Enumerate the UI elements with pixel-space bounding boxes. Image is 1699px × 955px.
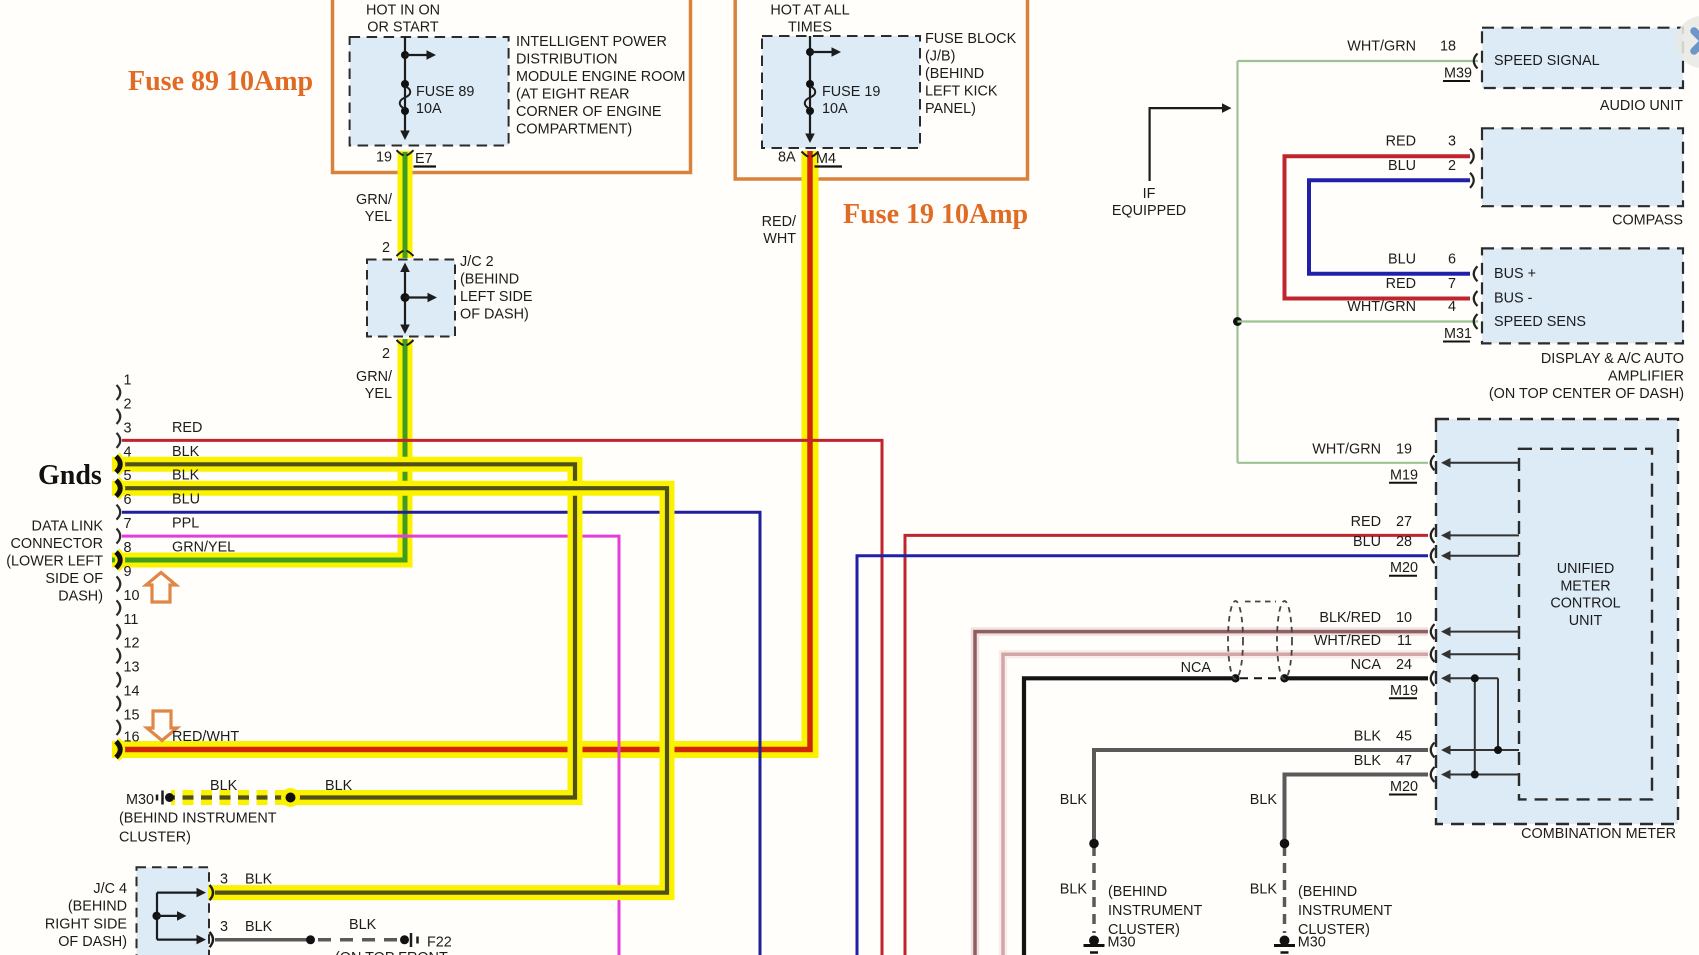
svg-text:9: 9 <box>124 564 132 580</box>
ground symbol M30 (left) <box>1089 936 1099 946</box>
svg-text:WHT/RED: WHT/RED <box>1314 633 1381 649</box>
svg-text:WHT/GRN: WHT/GRN <box>1347 39 1416 55</box>
svg-text:CONTROL: CONTROL <box>1550 596 1620 612</box>
svg-text:HOT IN ON: HOT IN ON <box>366 3 440 19</box>
svg-text:BLU: BLU <box>1353 534 1381 550</box>
wire RED 3 / RED 7 compass loop <box>1285 156 1471 298</box>
svg-text:M30: M30 <box>1108 935 1136 951</box>
svg-text:OF DASH): OF DASH) <box>58 934 127 950</box>
svg-text:GRN/: GRN/ <box>356 369 392 385</box>
wire BLK J/C4 pin 3 to F22 <box>215 938 311 942</box>
svg-text:4: 4 <box>1448 299 1456 315</box>
svg-text:WHT/GRN: WHT/GRN <box>1312 441 1381 457</box>
svg-text:15: 15 <box>124 708 140 724</box>
fuse box E7 (Intelligent Power Distribution Module) <box>350 37 509 146</box>
svg-text:BLK: BLK <box>1354 753 1382 769</box>
wire RED 27 to unified meter <box>905 535 1428 955</box>
svg-text:PANEL): PANEL) <box>925 101 976 117</box>
svg-text:M20: M20 <box>1390 560 1418 576</box>
svg-text:FUSE 19: FUSE 19 <box>822 84 880 100</box>
power source box 2 (HOT AT ALL TIMES) <box>735 0 1027 179</box>
svg-text:11: 11 <box>1397 633 1412 649</box>
power source box 1 (HOT IN ON OR START) <box>333 0 691 173</box>
fuse 19 symbol and feed line <box>809 36 811 134</box>
svg-text:3: 3 <box>1448 134 1456 150</box>
junction connector J/C 2 <box>367 260 455 337</box>
J/C 4 internal branches <box>156 893 158 940</box>
svg-text:(BEHIND: (BEHIND <box>68 899 127 915</box>
svg-text:10A: 10A <box>822 101 848 117</box>
svg-text:UNIFIED: UNIFIED <box>1557 561 1615 577</box>
svg-text:TIMES: TIMES <box>788 20 832 36</box>
J/C 4 pin arcs <box>210 885 214 900</box>
svg-text:BLK: BLK <box>245 872 273 888</box>
wire BLK 47 to ground M30 right <box>1285 775 1429 844</box>
svg-text:NCA: NCA <box>1181 660 1212 676</box>
wire GRN/YEL fuse89 to J/C2 (yellow highlight) <box>398 151 413 258</box>
svg-text:13: 13 <box>124 660 140 676</box>
svg-text:BLU: BLU <box>172 492 200 508</box>
svg-text:(AT EIGHT REAR: (AT EIGHT REAR <box>516 87 630 103</box>
svg-text:WHT/GRN: WHT/GRN <box>1347 299 1416 315</box>
svg-text:SIDE OF: SIDE OF <box>45 571 103 587</box>
svg-text:M30: M30 <box>1298 935 1326 951</box>
connector arcs at combination meter <box>1431 455 1435 470</box>
svg-text:HOT AT ALL: HOT AT ALL <box>770 3 849 19</box>
svg-text:(BEHIND: (BEHIND <box>1298 884 1357 900</box>
svg-text:LEFT SIDE: LEFT SIDE <box>460 289 533 305</box>
svg-text:BLK: BLK <box>1060 882 1088 898</box>
svg-text:COMPARTMENT): COMPARTMENT) <box>516 122 632 138</box>
svg-text:CORNER OF ENGINE: CORNER OF ENGINE <box>516 104 662 120</box>
connector symbol at J/C 2 top <box>397 251 404 256</box>
svg-text:MODULE ENGINE ROOM: MODULE ENGINE ROOM <box>516 69 686 85</box>
svg-text:DASH): DASH) <box>58 589 103 605</box>
data link connector pin arcs 1-16 <box>117 385 121 400</box>
svg-text:BUS +: BUS + <box>1494 266 1536 282</box>
svg-text:14: 14 <box>124 684 140 700</box>
svg-text:2: 2 <box>124 396 132 412</box>
svg-text:3: 3 <box>124 420 132 436</box>
wire GRN/YEL J/C2 to data link pin 8 (yellow highlight) <box>112 339 405 560</box>
svg-text:SPEED SIGNAL: SPEED SIGNAL <box>1494 53 1600 69</box>
svg-text:7: 7 <box>124 516 132 532</box>
svg-text:BLK: BLK <box>1060 792 1088 808</box>
compass box <box>1482 128 1683 206</box>
svg-text:BLK: BLK <box>210 778 238 794</box>
svg-text:M19: M19 <box>1390 467 1418 483</box>
wire PPL data link pin 7 <box>122 536 619 955</box>
connector symbol at J/C 2 bottom <box>397 340 404 345</box>
wire RED/WHT fuse19 to data link pin 16 (yellow highlight) <box>112 151 810 750</box>
wire BLU 28 to unified meter <box>857 556 1428 955</box>
svg-text:NCA: NCA <box>1351 657 1382 673</box>
wire BLK data link pin 4 to M30 ground (yellow highlight) <box>112 464 575 797</box>
svg-text:(BEHIND INSTRUMENT: (BEHIND INSTRUMENT <box>119 811 277 827</box>
svg-text:M19: M19 <box>1390 683 1418 699</box>
svg-text:E7: E7 <box>415 151 433 167</box>
svg-text:BLU: BLU <box>1388 251 1416 267</box>
wire WHT/GRN 18 to audio unit <box>1238 60 1479 62</box>
junction connector J/C 4 <box>137 867 210 955</box>
floating viewer button top right <box>1676 16 1699 68</box>
wire BLK/RED 10 to unified meter <box>975 632 1428 955</box>
svg-text:BLK: BLK <box>1250 792 1278 808</box>
svg-text:BLK/RED: BLK/RED <box>1319 610 1381 626</box>
svg-text:11: 11 <box>124 612 139 628</box>
wire WHT/GRN 19 to unified meter <box>1238 462 1429 464</box>
svg-text:RED: RED <box>1386 134 1416 150</box>
connector arcs at audio unit / amplifier <box>1474 54 1478 69</box>
svg-text:(BEHIND: (BEHIND <box>460 272 519 288</box>
svg-text:4: 4 <box>124 444 132 460</box>
svg-text:(J/B): (J/B) <box>925 49 955 65</box>
svg-text:(BEHIND: (BEHIND <box>925 66 984 82</box>
svg-text:3: 3 <box>220 919 228 935</box>
svg-text:RED: RED <box>172 420 202 436</box>
svg-text:INSTRUMENT: INSTRUMENT <box>1108 903 1203 919</box>
unified meter control unit inner box <box>1519 449 1652 800</box>
fuse box M4 (Fuse Block J/B) <box>762 36 920 148</box>
svg-text:10: 10 <box>124 588 140 604</box>
svg-text:24: 24 <box>1396 657 1412 673</box>
orange block arrow up (near pin 9) <box>146 573 176 603</box>
svg-text:IF: IF <box>1143 186 1156 202</box>
svg-text:AUDIO UNIT: AUDIO UNIT <box>1600 98 1683 114</box>
wire WHT/RED 11 to unified meter <box>1003 654 1428 955</box>
svg-text:INSTRUMENT: INSTRUMENT <box>1298 903 1393 919</box>
svg-text:COMPASS: COMPASS <box>1612 213 1683 229</box>
svg-text:8A: 8A <box>778 150 796 166</box>
fuse 89 symbol and feed line <box>404 37 406 131</box>
svg-text:DATA LINK: DATA LINK <box>32 519 104 535</box>
svg-text:Gnds: Gnds <box>38 460 102 491</box>
svg-text:CLUSTER): CLUSTER) <box>119 830 191 846</box>
svg-text:8: 8 <box>124 540 132 556</box>
svg-text:(LOWER LEFT: (LOWER LEFT <box>6 554 103 570</box>
svg-text:OR START: OR START <box>367 20 439 36</box>
svg-text:J/C 4: J/C 4 <box>93 881 127 897</box>
svg-text:BLU: BLU <box>1388 158 1416 174</box>
svg-text:6: 6 <box>1448 251 1456 267</box>
orange block arrow down (near pin 15) <box>147 711 177 741</box>
svg-text:RED/: RED/ <box>762 214 796 230</box>
svg-text:RED: RED <box>1386 276 1416 292</box>
IF EQUIPPED pointer arrow <box>1150 108 1222 181</box>
wire RED data link pin 3 <box>122 440 882 955</box>
svg-text:10A: 10A <box>416 101 442 117</box>
svg-text:YEL: YEL <box>365 209 392 225</box>
svg-text:(BEHIND: (BEHIND <box>1108 884 1167 900</box>
svg-text:DISTRIBUTION: DISTRIBUTION <box>516 52 618 68</box>
svg-text:10: 10 <box>1396 610 1412 626</box>
svg-text:J/C 2: J/C 2 <box>460 254 494 270</box>
svg-text:METER: METER <box>1560 578 1610 594</box>
svg-text:47: 47 <box>1396 753 1412 769</box>
svg-text:AMPLIFIER: AMPLIFIER <box>1608 369 1684 385</box>
svg-text:CONNECTOR: CONNECTOR <box>11 536 103 552</box>
svg-text:6: 6 <box>124 492 132 508</box>
svg-text:RED: RED <box>1351 514 1381 530</box>
connector arcs at compass <box>1470 149 1474 164</box>
svg-text:2: 2 <box>382 346 390 362</box>
svg-text:16: 16 <box>124 730 140 746</box>
svg-text:GRN/: GRN/ <box>356 192 392 208</box>
M30 inline connector symbol <box>161 791 164 805</box>
svg-text:FUSE 89: FUSE 89 <box>416 84 474 100</box>
svg-text:BLK: BLK <box>1250 882 1278 898</box>
svg-text:BLK: BLK <box>349 917 377 933</box>
svg-text:DISPLAY & A/C AUTO: DISPLAY & A/C AUTO <box>1541 351 1684 367</box>
svg-text:7: 7 <box>1448 276 1456 292</box>
svg-text:Fuse 89 10Amp: Fuse 89 10Amp <box>128 66 313 97</box>
svg-text:COMBINATION METER: COMBINATION METER <box>1521 826 1676 842</box>
wire WHT/GRN vertical <box>1236 61 1238 463</box>
svg-text:18: 18 <box>1440 39 1456 55</box>
wire BLU data link pin 6 <box>122 512 760 955</box>
svg-text:3: 3 <box>220 872 228 888</box>
svg-text:SPEED SENS: SPEED SENS <box>1494 314 1586 330</box>
junction dot WHT/GRN <box>1233 317 1242 326</box>
svg-text:19: 19 <box>1396 441 1412 457</box>
junction dot on M30 wire <box>281 788 300 807</box>
svg-text:YEL: YEL <box>365 386 392 402</box>
svg-text:27: 27 <box>1396 514 1412 530</box>
junction dots on NCA shield <box>1231 674 1239 682</box>
shield symbol (dashed ellipses) around BLK/RED and WHT/RED <box>1228 601 1243 679</box>
svg-text:M31: M31 <box>1444 326 1472 342</box>
J/C 2 internal arrows <box>404 266 406 329</box>
audio unit box (SPEED SIGNAL) <box>1482 28 1683 88</box>
svg-text:BLK: BLK <box>1354 729 1382 745</box>
svg-text:5: 5 <box>124 468 132 484</box>
svg-text:BLK: BLK <box>172 444 200 460</box>
combination meter outer box <box>1436 419 1678 824</box>
M30 dashed wire segment (yellow highlight) <box>171 790 286 805</box>
svg-text:BLK: BLK <box>245 919 273 935</box>
wire BLU 2 / BLU 6 compass loop <box>1309 180 1470 273</box>
wire BLK data link pin 5 to J/C4 (yellow highlight) <box>112 488 667 892</box>
NCA 24 internal arrow <box>1450 677 1498 679</box>
svg-text:M4: M4 <box>816 151 836 167</box>
wire NCA 24 to unified meter <box>1024 678 1236 955</box>
svg-text:RED/WHT: RED/WHT <box>172 729 239 745</box>
svg-text:M30: M30 <box>126 792 154 808</box>
svg-text:BLK: BLK <box>172 468 200 484</box>
svg-text:1: 1 <box>124 373 132 389</box>
svg-text:UNIT: UNIT <box>1569 613 1603 629</box>
svg-text:(ON TOP FRONT: (ON TOP FRONT <box>335 950 448 955</box>
svg-text:LEFT KICK: LEFT KICK <box>925 84 998 100</box>
svg-text:2: 2 <box>1448 158 1456 174</box>
ground symbol M30 (right) <box>1280 936 1290 946</box>
svg-text:FUSE BLOCK: FUSE BLOCK <box>925 31 1017 47</box>
svg-text:BLK: BLK <box>325 778 353 794</box>
svg-text:45: 45 <box>1396 729 1412 745</box>
svg-text:EQUIPPED: EQUIPPED <box>1112 203 1186 219</box>
display & A/C auto amplifier box <box>1482 248 1683 343</box>
wire WHT/GRN 4 to speed sens <box>1238 320 1479 322</box>
svg-text:M20: M20 <box>1390 779 1418 795</box>
F22 inline connector symbol <box>410 933 413 947</box>
svg-text:OF DASH): OF DASH) <box>460 307 529 323</box>
svg-text:INTELLIGENT POWER: INTELLIGENT POWER <box>516 34 667 50</box>
svg-text:M39: M39 <box>1444 66 1472 82</box>
meter internal vertical links <box>1474 678 1476 774</box>
svg-text:19: 19 <box>376 150 392 166</box>
connector M4 symbol at fuse box 2 bottom <box>802 152 809 157</box>
svg-text:WHT: WHT <box>763 231 796 247</box>
wire BLK 45 to ground M30 left <box>1094 750 1428 844</box>
svg-text:2: 2 <box>382 240 390 256</box>
svg-text:(ON TOP CENTER OF DASH): (ON TOP CENTER OF DASH) <box>1489 386 1684 402</box>
svg-text:28: 28 <box>1396 534 1412 550</box>
svg-text:GRN/YEL: GRN/YEL <box>172 540 235 556</box>
svg-text:PPL: PPL <box>172 516 199 532</box>
connector E7 symbol at fuse box 1 bottom <box>397 150 404 155</box>
svg-text:RIGHT SIDE: RIGHT SIDE <box>45 916 127 932</box>
svg-text:BUS -: BUS - <box>1494 291 1533 307</box>
svg-text:Fuse 19 10Amp: Fuse 19 10Amp <box>843 199 1028 230</box>
unified meter input arrows <box>1450 462 1519 464</box>
svg-text:12: 12 <box>124 636 140 652</box>
svg-text:F22: F22 <box>427 934 452 950</box>
